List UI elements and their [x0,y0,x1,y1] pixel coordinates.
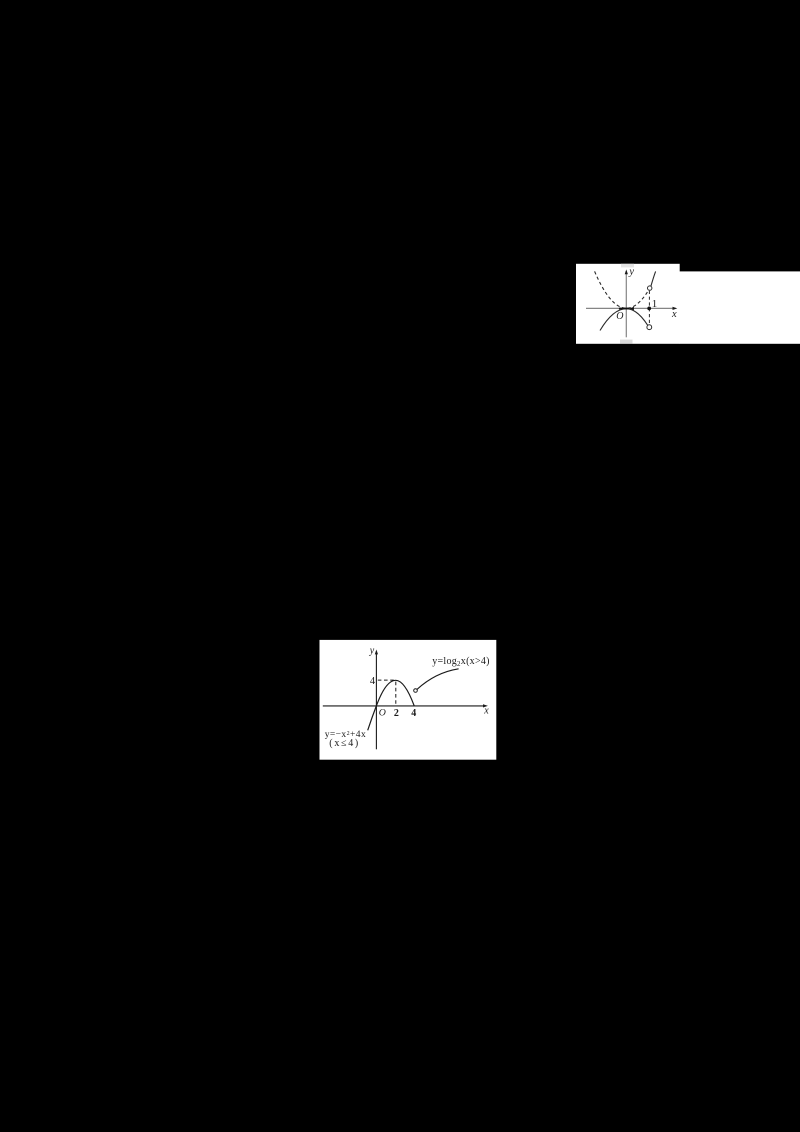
fig2 dashed vertical line x=2 [395,682,397,706]
fig2 x-axis [323,705,486,707]
fig2 open circle at (4,2) [414,689,418,693]
fig2 parabola y=-x^2+4x [368,680,415,730]
fig1 left-pointing arrowhead on axis [630,307,634,311]
fig2 y-axis [375,652,377,750]
svg-text:y=log2x(x>4): y=log2x(x>4) [432,656,490,668]
fig1 solid rising curve upper right [651,271,656,286]
fig1 upper open circle [648,286,652,290]
fig1 lower open circle [647,325,652,330]
fig1 x-axis arrowhead [673,307,678,310]
fig1 dashed parabola y=x^2 [595,271,650,308]
fig2 y-axis arrowhead [375,650,378,655]
fig1 y-axis arrowhead [625,269,628,274]
fig2 dashed horizontal line y=4 [378,679,395,681]
svg-text:O: O [616,311,623,322]
svg-text:4: 4 [370,676,376,687]
svg-text:y: y [369,646,375,657]
figure 1 white band extending to right edge [680,271,800,343]
figure 1 white panel (top strip) [576,264,680,344]
gray smudge top of figure 1 [621,264,634,268]
fig1 filled dot at (1,0) [647,307,651,311]
svg-text:(x≤4): (x≤4) [329,738,360,749]
figure 2 white panel [320,640,497,760]
fig1 y-axis [625,271,627,337]
fig2 x-axis arrowhead [483,704,488,707]
svg-text:2: 2 [394,708,399,719]
fig2 log curve [417,669,459,690]
fig1 thick tangent segment at origin [619,308,629,310]
svg-text:O: O [379,707,386,718]
svg-text:y: y [628,266,634,277]
fig1 vertical dashed line at x=1 [648,291,650,325]
gray smudge bottom of figure 1 [620,340,633,344]
svg-text:4: 4 [411,708,416,719]
fig1 solid lower parabola left half [600,309,648,331]
svg-text:1: 1 [652,298,658,310]
fig1 x-axis [586,307,676,309]
svg-text:x: x [483,706,489,717]
svg-text:x: x [671,309,677,320]
